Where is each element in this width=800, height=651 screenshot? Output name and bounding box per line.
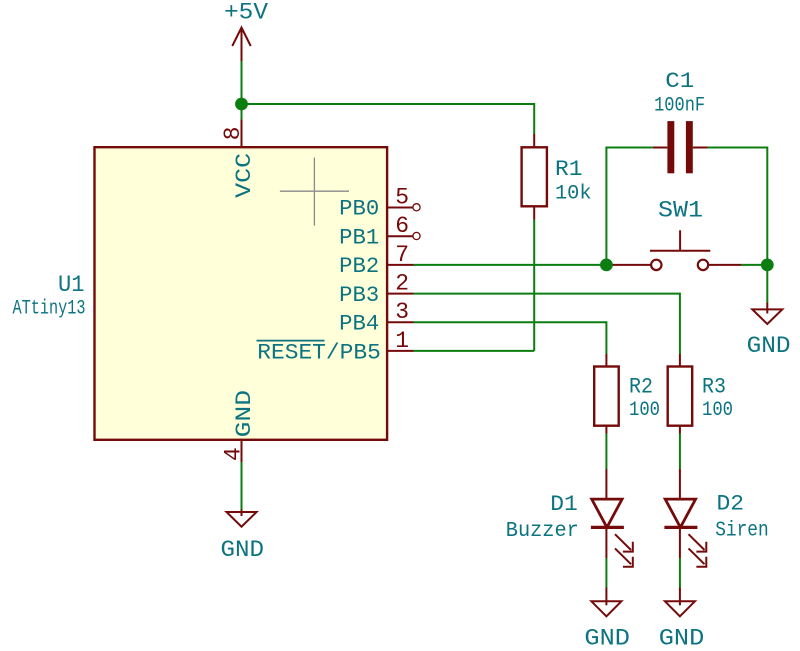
svg-text:RESET/PB5: RESET/PB5 bbox=[257, 341, 381, 366]
svg-text:ATtiny13: ATtiny13 bbox=[13, 298, 86, 321]
svg-text:6: 6 bbox=[395, 213, 409, 239]
svg-text:D2: D2 bbox=[717, 491, 745, 517]
svg-text:PB3: PB3 bbox=[339, 283, 379, 308]
svg-text:PB2: PB2 bbox=[339, 254, 379, 279]
resistor R3 bbox=[668, 354, 733, 434]
svg-text:1: 1 bbox=[395, 328, 409, 354]
svg-text:100: 100 bbox=[702, 399, 733, 422]
capacitor C1 bbox=[653, 69, 708, 173]
wire junction to pin 8 bbox=[241, 104, 243, 119]
pin 2 PB3 bbox=[339, 271, 413, 308]
resistor R1 bbox=[522, 134, 592, 220]
switch SW1 bbox=[610, 197, 741, 270]
LED D1 bbox=[506, 469, 633, 567]
svg-text:U1: U1 bbox=[58, 272, 85, 299]
wire PB3 column down to R3 bbox=[679, 293, 681, 354]
svg-text:PB1: PB1 bbox=[339, 225, 379, 250]
wire top row junction to R1 column bbox=[241, 103, 535, 105]
pin 4 GND bottom bbox=[220, 390, 256, 462]
pin 7 PB2 bbox=[339, 242, 413, 279]
wire +5V to junction bbox=[241, 61, 243, 104]
wire C1 left column down to switch node bbox=[605, 147, 607, 265]
wire pin4 to ground bbox=[241, 462, 243, 510]
ground right of SW1 bbox=[747, 265, 791, 359]
svg-text:C1: C1 bbox=[665, 69, 694, 94]
pin 5 PB0 bbox=[339, 184, 420, 221]
ground under D2 bbox=[659, 588, 705, 651]
wire C1 right column down to switch node bbox=[766, 147, 768, 265]
svg-text:Siren: Siren bbox=[715, 519, 769, 542]
svg-text:3: 3 bbox=[395, 299, 409, 325]
svg-text:PB0: PB0 bbox=[339, 197, 379, 222]
junction at SW1 left node bbox=[600, 259, 613, 272]
junction at +5V node bbox=[235, 98, 248, 111]
svg-text:100nF: 100nF bbox=[654, 95, 705, 118]
wire PB4 row bbox=[414, 321, 607, 323]
svg-text:GND: GND bbox=[659, 626, 705, 651]
wire PB2 to SW1 bbox=[414, 264, 607, 266]
wire D1 to ground bbox=[605, 558, 607, 588]
svg-text:R3: R3 bbox=[702, 374, 726, 399]
wire C1 right lead bbox=[708, 147, 767, 149]
pin 8 VCC top bbox=[220, 119, 257, 197]
wire R2 to D1 bbox=[605, 434, 607, 470]
svg-text:R2: R2 bbox=[629, 374, 653, 399]
pin 1 RESET/PB5 bbox=[257, 328, 414, 366]
ground under D1 bbox=[584, 588, 630, 651]
junction at SW1 right node bbox=[761, 259, 774, 272]
wire PB3 row bbox=[414, 293, 680, 295]
wire D2 to ground bbox=[679, 558, 681, 588]
resistor R2 bbox=[594, 354, 660, 434]
svg-text:+5V: +5V bbox=[224, 0, 268, 26]
wire SW1 right to junction bbox=[741, 264, 767, 266]
wire down to R1 bbox=[533, 103, 535, 134]
svg-text:PB4: PB4 bbox=[339, 312, 379, 337]
svg-text:R1: R1 bbox=[555, 157, 583, 182]
power symbol +5V arrow bbox=[232, 28, 250, 62]
svg-text:100: 100 bbox=[629, 399, 660, 422]
LED D2 bbox=[664, 469, 768, 567]
svg-text:Buzzer: Buzzer bbox=[506, 520, 579, 543]
wire PB4 column down to R2 bbox=[605, 321, 607, 354]
svg-text:7: 7 bbox=[395, 242, 409, 268]
svg-text:5: 5 bbox=[395, 184, 409, 210]
ground under U1 bbox=[221, 510, 265, 563]
svg-text:4: 4 bbox=[220, 447, 246, 461]
wire C1 left lead bbox=[606, 147, 653, 149]
svg-text:GND: GND bbox=[747, 333, 791, 359]
symbol anchor cross bbox=[280, 158, 349, 226]
wire RESET row bbox=[414, 350, 535, 352]
svg-text:VCC: VCC bbox=[232, 153, 257, 198]
svg-text:GND: GND bbox=[584, 626, 630, 651]
pin 6 PB1 bbox=[339, 213, 420, 250]
svg-text:8: 8 bbox=[220, 126, 246, 140]
svg-text:D1: D1 bbox=[550, 491, 578, 517]
svg-text:SW1: SW1 bbox=[658, 197, 703, 223]
svg-text:GND: GND bbox=[232, 390, 257, 437]
pin 3 PB4 bbox=[339, 299, 413, 336]
svg-text:GND: GND bbox=[221, 537, 265, 563]
svg-text:2: 2 bbox=[395, 271, 409, 297]
wire R1 bottom down bbox=[533, 220, 535, 351]
svg-text:10k: 10k bbox=[555, 183, 592, 206]
wire R3 to D2 bbox=[679, 434, 681, 470]
IC U1 body bbox=[95, 147, 388, 440]
